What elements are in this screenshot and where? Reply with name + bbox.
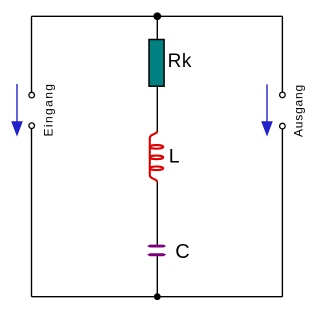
- svg-text:Eingang: Eingang: [42, 83, 56, 137]
- svg-text:Ausgang: Ausgang: [292, 84, 306, 137]
- svg-text:Rk: Rk: [168, 51, 192, 72]
- svg-text:C: C: [175, 241, 189, 263]
- svg-text:L: L: [169, 146, 180, 168]
